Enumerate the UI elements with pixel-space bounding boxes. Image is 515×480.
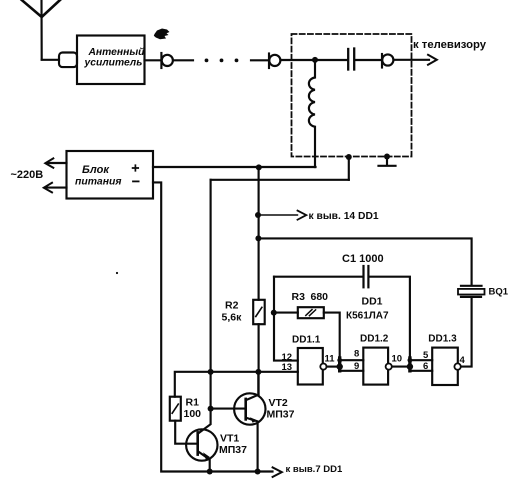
svg-text:R2: R2 [225,300,239,312]
svg-text:Блок: Блок [82,164,110,176]
svg-text:DD1.1: DD1.1 [292,335,321,346]
svg-text:4: 4 [460,355,466,366]
svg-text:BQ1: BQ1 [489,287,509,298]
svg-text:R3: R3 [292,291,306,303]
svg-text:R1: R1 [186,396,200,408]
svg-text:680: 680 [311,291,329,303]
svg-text:МП37: МП37 [267,409,295,421]
svg-text:VT2: VT2 [269,397,288,409]
svg-text:К561ЛА7: К561ЛА7 [346,311,389,322]
svg-text:13: 13 [282,362,293,373]
svg-text:питания: питания [75,177,121,188]
svg-text:Антенный: Антенный [88,47,146,58]
svg-text:VT1: VT1 [220,433,239,445]
svg-text:10: 10 [392,354,403,365]
svg-text:8: 8 [354,349,359,360]
svg-text:5,6к: 5,6к [222,311,243,323]
svg-text:11: 11 [325,354,336,365]
svg-text:к телевизору: к телевизору [413,39,487,51]
svg-text:DD1.2: DD1.2 [360,334,389,345]
svg-text:100: 100 [184,408,202,420]
svg-text:5: 5 [423,350,429,361]
svg-text:к выв.7 DD1: к выв.7 DD1 [286,464,343,475]
svg-text:9: 9 [354,361,359,372]
svg-text:МП37: МП37 [219,444,247,456]
svg-text:к выв. 14 DD1: к выв. 14 DD1 [309,211,379,222]
svg-text:6: 6 [423,361,428,372]
svg-text:DD1: DD1 [362,296,383,308]
svg-text:C1 1000: C1 1000 [342,253,384,265]
svg-text:DD1.3: DD1.3 [428,334,457,345]
svg-text:усилитель: усилитель [84,58,143,69]
svg-text:~220В: ~220В [11,169,44,181]
